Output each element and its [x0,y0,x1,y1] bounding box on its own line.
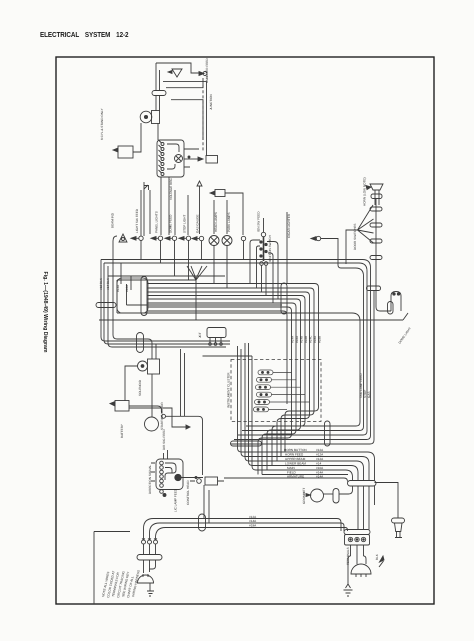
svg-text:ARMATURE: ARMATURE [287,475,304,479]
svg-text:SOLENOID: SOLENOID [138,379,142,396]
svg-text:CIGAR LIGHTER: CIGAR LIGHTER [287,213,291,238]
svg-text:TERMINALS: TERMINALS [346,547,350,565]
svg-text:HORN FEED: HORN FEED [285,453,304,457]
svg-text:PANEL LIGHTS: PANEL LIGHTS [155,211,159,233]
svg-text:#14A: #14A [116,284,120,292]
svg-text:#14A: #14A [249,519,257,523]
svg-text:IGN SW FEED: IGN SW FEED [257,211,261,232]
svg-text:#14 BLK: #14 BLK [106,277,110,290]
svg-text:INSTRUMENT CLUSTER: INSTRUMENT CLUSTER [227,372,231,408]
svg-text:8 CYL & STAND ONLY: 8 CYL & STAND ONLY [100,108,104,140]
svg-text:#10A: #10A [316,466,324,470]
svg-text:DOME FEED: DOME FEED [169,214,173,233]
svg-text:#14B: #14B [300,336,304,343]
svg-text:IGNITION SWITCH: IGNITION SWITCH [268,235,272,262]
svg-text:#18A: #18A [313,335,317,343]
svg-text:HEAD LAMPS: HEAD LAMPS [214,212,218,232]
svg-text:PARK LAMPS: PARK LAMPS [227,212,231,232]
svg-text:GAS GAUGE: GAS GAUGE [196,214,200,233]
svg-text:DIR SIG FEED: DIR SIG FEED [162,429,166,450]
svg-text:#14: #14 [316,462,321,466]
svg-text:#12A: #12A [316,457,324,461]
svg-text:#14C: #14C [309,335,313,343]
svg-text:GROMMET: GROMMET [302,488,306,504]
svg-text:HORN BUTTON: HORN BUTTON [284,448,307,452]
svg-text:MAIN: MAIN [287,466,295,470]
svg-text:LOWER BEAM: LOWER BEAM [285,462,306,466]
svg-text:UPPER BEAM: UPPER BEAM [285,457,306,461]
svg-text:JUNCTION: JUNCTION [209,94,213,110]
svg-text:#18B: #18B [318,336,322,343]
svg-text:#14A: #14A [291,335,295,343]
svg-text:AMMETER FEED: AMMETER FEED [205,58,209,83]
svg-text:#12A: #12A [316,448,324,452]
svg-text:GAS: GAS [367,391,371,398]
svg-text:HORN (LOW NOTE): HORN (LOW NOTE) [363,177,367,206]
svg-text:#16A: #16A [125,284,129,292]
svg-text:DOOR SWITCHES: DOOR SWITCHES [353,224,357,250]
svg-text:LIGHT SW FEED: LIGHT SW FEED [135,208,139,233]
svg-text:DIRECTION SIGNAL: DIRECTION SIGNAL [148,464,152,494]
svg-text:BEAM IND: BEAM IND [111,212,115,228]
svg-text:BATTERY: BATTERY [120,424,124,438]
svg-text:STOP LIGHT: STOP LIGHT [183,215,187,233]
svg-text:#16A: #16A [295,335,299,343]
svg-text:#12 BLK: #12 BLK [99,277,103,290]
svg-text:#12A: #12A [316,453,324,457]
svg-text:JCT: JCT [198,332,202,338]
svg-text:CONTROL HEAD: CONTROL HEAD [186,480,190,505]
svg-text:STARTING MOTOR: STARTING MOTOR [160,402,164,430]
svg-text:#16B: #16B [304,336,308,343]
svg-text:#14A: #14A [316,475,324,479]
svg-text:BLK: BLK [375,553,379,560]
svg-text:LIC LAMP FEED: LIC LAMP FEED [174,488,178,512]
svg-text:DOME LIGHT: DOME LIGHT [398,326,412,344]
svg-text:VOLTAGE REG: VOLTAGE REG [169,178,173,200]
svg-text:#18A: #18A [249,524,257,528]
